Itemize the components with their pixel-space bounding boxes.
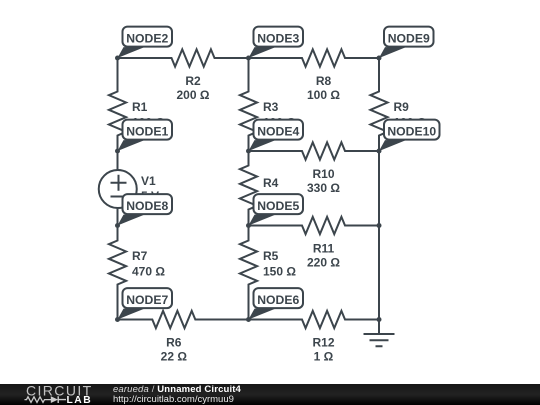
svg-text:NODE6: NODE6: [257, 293, 299, 307]
svg-text:NODE10: NODE10: [387, 125, 436, 139]
svg-text:100 Ω: 100 Ω: [307, 88, 340, 102]
svg-text:R7: R7: [132, 249, 148, 263]
svg-text:V1: V1: [141, 174, 156, 188]
svg-text:220 Ω: 220 Ω: [307, 255, 340, 269]
svg-text:R10: R10: [312, 167, 334, 181]
svg-text:NODE5: NODE5: [257, 199, 299, 213]
svg-text:1 Ω: 1 Ω: [314, 349, 334, 363]
svg-text:NODE3: NODE3: [257, 32, 299, 46]
svg-text:NODE2: NODE2: [126, 32, 168, 46]
svg-text:R9: R9: [394, 100, 410, 114]
svg-text:http://circuitlab.com/cyrmuu9: http://circuitlab.com/cyrmuu9: [113, 394, 234, 405]
svg-text:NODE7: NODE7: [126, 293, 168, 307]
svg-text:22 Ω: 22 Ω: [161, 349, 188, 363]
svg-text:R12: R12: [312, 336, 334, 350]
svg-text:R2: R2: [185, 74, 201, 88]
svg-text:R4: R4: [263, 176, 279, 190]
svg-text:470 Ω: 470 Ω: [132, 265, 165, 279]
svg-text:NODE4: NODE4: [257, 125, 299, 139]
svg-text:R1: R1: [132, 100, 148, 114]
svg-text:R5: R5: [263, 249, 279, 263]
svg-text:R3: R3: [263, 100, 279, 114]
svg-text:330 Ω: 330 Ω: [307, 181, 340, 195]
svg-text:NODE1: NODE1: [126, 125, 168, 139]
svg-text:NODE8: NODE8: [126, 199, 168, 213]
svg-text:200 Ω: 200 Ω: [177, 88, 210, 102]
svg-text:R8: R8: [316, 74, 332, 88]
svg-text:R6: R6: [166, 336, 182, 350]
svg-text:NODE9: NODE9: [388, 32, 430, 46]
svg-text:150 Ω: 150 Ω: [263, 265, 296, 279]
svg-text:R11: R11: [313, 242, 335, 256]
svg-text:LAB: LAB: [67, 395, 93, 405]
